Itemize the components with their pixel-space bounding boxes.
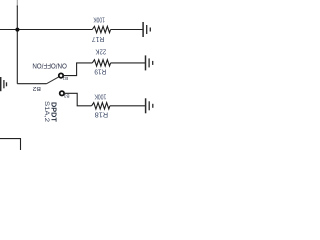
wire: R18 to ground: [110, 105, 145, 107]
ground G4 (left edge, clipped): [0, 77, 7, 91]
wire: bottom-left corner: [0, 139, 21, 150]
svg-text:R18: R18: [95, 110, 109, 119]
svg-text:B1: B1: [62, 76, 68, 81]
resistor R17: [92, 26, 110, 32]
switch S1 throw contact B3: [60, 91, 64, 95]
svg-text:ON/OFF/ON: ON/OFF/ON: [32, 62, 67, 71]
resistor R19: [92, 60, 110, 66]
svg-text:S1A,2: S1A,2: [43, 101, 50, 123]
switch S1 throw contact B1: [59, 73, 63, 77]
wire: vertical bus from top: [16, 0, 18, 7]
svg-text:100K: 100K: [94, 92, 106, 101]
svg-text:DPDT: DPDT: [49, 102, 58, 122]
resistor R18: [92, 103, 110, 109]
svg-text:B3: B3: [64, 94, 70, 99]
wire: common stub to switch: [17, 83, 46, 85]
ground G3: [146, 98, 153, 113]
ground G2: [146, 55, 153, 70]
ground G1 (rotated, bars): [143, 22, 150, 37]
svg-text:22K: 22K: [95, 47, 106, 56]
svg-text:100K: 100K: [93, 15, 105, 24]
wire: throw B1 jog up to R19: [63, 63, 92, 76]
wire: throw B3 jog down to R18: [64, 93, 92, 106]
svg-text:R17: R17: [92, 35, 105, 44]
svg-text:B2: B2: [32, 85, 40, 91]
switch S1 lever (pole B common): [47, 77, 59, 84]
wire: R17 to ground: [111, 29, 143, 31]
node junction dot: [15, 28, 19, 32]
wire: R19 to ground: [111, 62, 145, 64]
wire: horizontal to R17 row: [0, 29, 92, 31]
svg-text:R19: R19: [94, 68, 106, 77]
